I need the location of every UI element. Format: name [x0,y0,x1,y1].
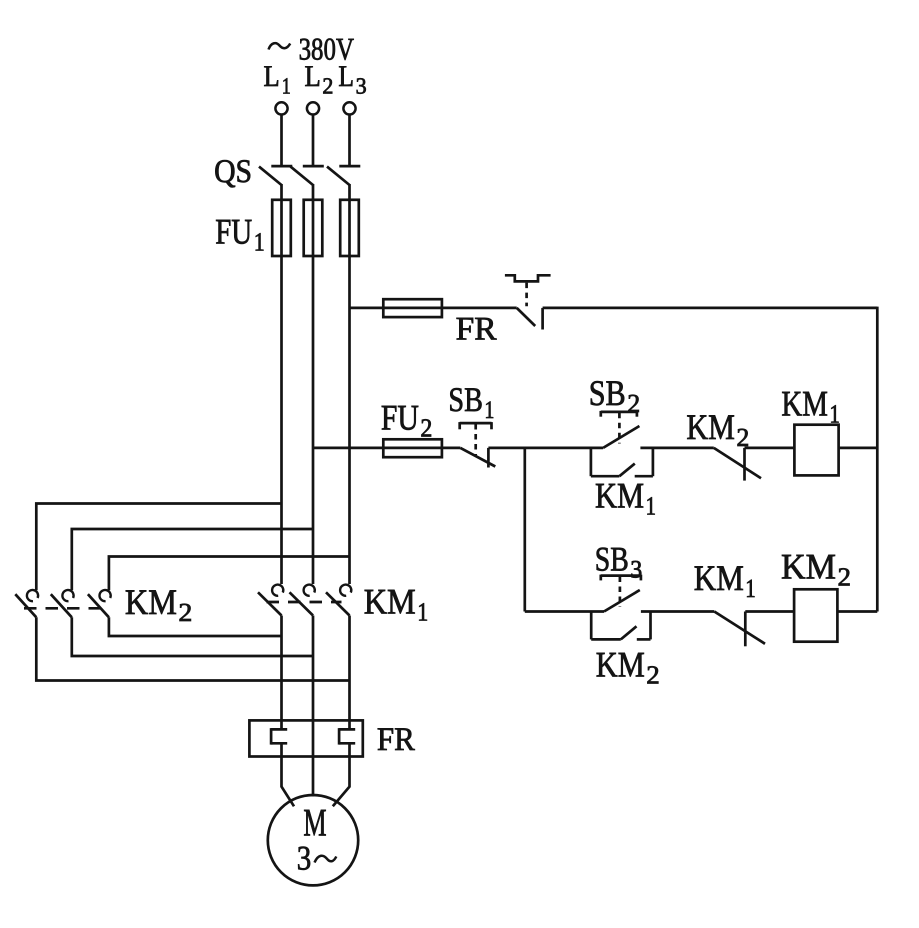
svg-text:1: 1 [829,400,840,429]
wire KM2 top outer [36,504,281,591]
svg-text:1: 1 [282,74,291,99]
contact FR normally-closed [517,308,543,330]
fuse on FR line [383,299,442,317]
svg-text:KM: KM [596,645,645,685]
fuse FU1 pole 2 [304,200,323,256]
svg-text:2: 2 [838,562,852,591]
contact SB1 normally-closed [460,448,495,468]
contact KM1 main pole 1 [258,585,283,616]
wire L3 to QS [348,115,351,165]
svg-text:1: 1 [254,227,265,256]
contact SB2 normally-open [603,426,639,448]
FR heater element phase1 [271,728,287,745]
wire rung1 after SB2 [640,447,713,450]
terminal circle L1 [275,102,287,114]
button SB3 plunger dashed [619,577,622,608]
svg-text:2: 2 [420,413,432,442]
svg-text:1: 1 [745,574,756,603]
switch QS pole 2 [291,166,324,185]
wire KM2 top middle [72,529,313,590]
contact KM2 main pole 1 [15,590,38,617]
label ~380V supply [269,32,355,67]
contact KM1 main pole 2 [290,585,315,616]
svg-text:FU: FU [215,211,252,251]
label KM2 auxiliary [596,645,660,690]
thermal relay FR box [249,720,362,756]
coil KM1 [794,425,838,476]
wire KM2 bottom inner [109,617,282,636]
svg-text:L: L [338,60,354,93]
label L3 [338,60,366,99]
wire phase L1 lower [280,616,283,730]
svg-text:SB: SB [448,381,483,419]
label QS [214,154,252,190]
svg-text:SB: SB [589,373,626,413]
svg-text:KM: KM [595,476,644,516]
label L2 [305,60,334,99]
wire KM1nc to coil [745,610,794,613]
wire KM2 bottom outer [36,617,349,680]
KM2 main linkage dashed [24,607,100,610]
svg-text:KM: KM [686,407,735,447]
fuse FU1 pole 1 [272,200,291,256]
svg-text:3: 3 [297,840,312,878]
svg-text:1: 1 [484,397,494,424]
switch QS pole 3 [327,166,360,185]
fuse FU1 pole 3 [340,200,359,256]
wire rung2 after SB3 [641,610,714,613]
svg-text:KM: KM [364,582,416,622]
wire phase L2 lower [312,616,315,797]
svg-text:3: 3 [630,556,642,583]
label KM1 interlock [694,558,756,603]
label FR thermal [377,722,415,758]
button SB3 cap [601,575,641,581]
label KM1 coil [781,384,840,429]
label KM1 auxiliary [595,476,656,521]
label KM2 main [125,582,192,627]
svg-text:2: 2 [178,598,192,627]
contact KM2 main pole 2 [51,590,74,617]
wire FR line right [543,307,878,310]
contact KM2 main pole 3 [88,590,111,617]
wire rung2 left [525,610,604,613]
KM1 main linkage dashed [267,601,342,604]
switch QS pole 1 [259,166,292,185]
svg-text:QS: QS [214,154,252,190]
label SB3 [595,540,643,583]
label FR [456,312,497,348]
wire phase L1 upper [280,184,283,584]
motor M circle [268,795,358,885]
wire KM2nc to coil [745,447,795,450]
label KM2 coil [781,546,851,591]
thermal relay FR heater symbol [505,275,551,281]
node junction rung1/rung2 [523,448,526,612]
contact KM1 auxiliary self-hold [591,447,653,476]
contact KM2 interlock normally-closed [714,448,761,481]
wire L1 to QS [280,115,283,165]
label KM2 interlock [686,407,749,452]
label 3~ motor [297,840,337,878]
svg-text:SB: SB [595,540,629,578]
button SB1 plunger dashed [474,424,477,455]
contact SB3 normally-open [604,590,640,612]
button SB2 cap [601,411,637,417]
wire coil KM2 to bus [837,610,877,613]
contact KM2 auxiliary self-hold [591,611,650,640]
FR linkage dashed [525,283,528,307]
wire KM2 top inner [109,557,350,591]
wire right bus [876,307,879,612]
label SB2 [589,373,641,418]
wire FR line left [350,307,517,310]
svg-text:2: 2 [627,389,640,418]
svg-text:L: L [305,60,321,93]
svg-text:3: 3 [356,74,367,99]
button SB2 plunger dashed [618,413,621,444]
svg-text:KM: KM [781,546,836,586]
svg-text:2: 2 [646,661,660,690]
svg-text:1: 1 [417,598,428,627]
label SB1 [448,381,494,424]
wire L2 to QS [312,115,315,165]
svg-text:KM: KM [781,384,828,424]
wire FR to motor phase1 [282,743,295,806]
wire rung1 mid [488,447,603,450]
contact KM1 main pole 3 [326,585,351,616]
label M [303,802,326,845]
label KM1 main [364,582,429,627]
label FU2 [381,397,433,442]
wire rung1 left [313,447,460,450]
wire phase L3 upper [348,184,351,584]
button SB1 cap [460,422,492,429]
svg-text:FR: FR [456,312,497,348]
svg-text:1: 1 [646,492,657,521]
svg-text:KM: KM [125,582,177,622]
svg-text:M: M [303,802,326,845]
label FU1 [215,211,265,256]
svg-text:L: L [264,60,280,93]
svg-text:2: 2 [322,74,333,99]
svg-text:FU: FU [381,397,419,437]
wire KM2 bottom middle [72,617,313,656]
label L1 [264,60,291,99]
wire FR to motor phase3 [333,743,350,806]
terminal circle L2 [307,102,319,114]
svg-text:FR: FR [377,722,415,758]
svg-text:KM: KM [694,558,744,598]
fuse FU2 [383,439,442,457]
wire phase L3 lower [348,616,351,730]
FR heater element phase3 [339,728,355,745]
coil KM2 [794,589,837,641]
contact KM1 interlock normally-closed [714,612,765,647]
terminal circle L3 [343,102,355,114]
wire coil KM1 to bus [839,447,878,450]
wire phase L2 upper [312,184,315,584]
